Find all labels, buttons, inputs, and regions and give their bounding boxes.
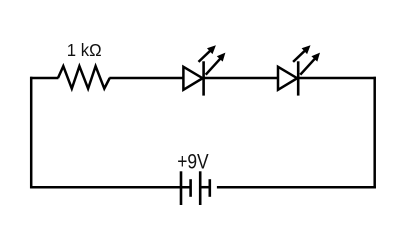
wire right vertical — [373, 77, 376, 189]
LED D1 triangle — [183, 67, 202, 90]
wire bottom-left to battery — [30, 186, 190, 189]
battery B1 short plate 1 — [189, 179, 192, 197]
LED D2 arrow 2 head — [311, 53, 320, 62]
wire LED2 to top-right corner — [298, 77, 376, 80]
svg-text:1 kΩ: 1 kΩ — [67, 40, 102, 60]
wire top-left — [30, 77, 58, 80]
wire resistor to LED1 — [109, 77, 183, 80]
LED D1 cathode bar — [202, 61, 205, 95]
LED D2 arrow 2 shaft — [300, 58, 315, 74]
LED D2 arrow 1 head — [302, 45, 311, 54]
LED D2 arrow 1 shaft — [293, 50, 306, 62]
wire left vertical — [30, 77, 33, 189]
LED D2 cathode bar — [297, 61, 300, 95]
wire LED1 to LED2 — [204, 77, 278, 80]
LED D1 arrow 2 shaft — [206, 58, 221, 74]
LED D1 arrow 1 head — [207, 45, 216, 54]
wire bottom-right to battery — [217, 186, 376, 189]
battery B1 long plate 2 — [199, 171, 202, 205]
resistor R1 — [58, 66, 110, 88]
LED D1 arrow 2 head — [217, 53, 226, 62]
LED D2 triangle — [278, 67, 297, 90]
svg-text:+9V: +9V — [177, 150, 209, 174]
battery B1 inter-plate stub — [200, 186, 210, 189]
battery B1 long plate 1 — [180, 171, 183, 205]
LED D1 arrow 1 shaft — [199, 50, 212, 62]
battery B1 short plate 2 — [209, 179, 212, 197]
